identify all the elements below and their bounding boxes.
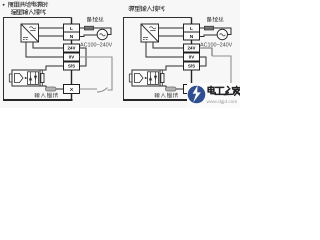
input switch <box>80 88 98 90</box>
wire AC source to N <box>80 35 98 37</box>
external input loop from 24V <box>200 48 213 56</box>
svg-text:N: N <box>70 34 74 40</box>
wire PSU to N <box>159 35 184 37</box>
svg-text:24V: 24V <box>67 46 75 51</box>
input switch <box>200 88 218 90</box>
terminal N <box>184 32 200 40</box>
AC/DC power supply unit <box>21 24 39 42</box>
internal resistor parallel to LED <box>41 70 43 86</box>
AC source <box>217 29 227 39</box>
wire to X terminal <box>40 86 64 89</box>
external input loop from 0V <box>80 57 113 90</box>
optocoupler detector arrow <box>15 74 24 83</box>
svg-text:0V: 0V <box>69 55 75 60</box>
header line 2: sink type input wiring <box>11 10 16 15</box>
optocoupler detector arrow <box>135 74 144 83</box>
watermark logo circle <box>188 86 206 104</box>
fuse <box>85 26 94 30</box>
right header: source type input wiring <box>129 6 135 11</box>
terminal L <box>64 24 80 32</box>
optocoupler LED pair box <box>148 72 159 85</box>
optocoupler input circuit box <box>132 70 160 86</box>
label input impedance <box>155 93 160 97</box>
wire L to fuse to AC source <box>80 28 112 35</box>
svg-text:S/S: S/S <box>68 64 75 69</box>
label fuse (baoxiansi) <box>207 17 211 22</box>
optocoupler output stubs <box>9 74 12 82</box>
svg-text:www.dgjd.com: www.dgjd.com <box>207 99 238 105</box>
wire PSU to L <box>39 27 64 29</box>
terminal 0V <box>184 53 200 61</box>
label input impedance <box>35 93 40 97</box>
terminal 24V <box>64 44 80 52</box>
PLC enclosure bottom edge (thick) <box>123 99 193 101</box>
wire to S/S terminal <box>160 66 184 70</box>
label fuse (baoxiansi) <box>87 17 91 22</box>
input impedance resistor <box>46 87 57 91</box>
watermark logo lightning <box>193 85 201 102</box>
watermark text dian gong zhi jia <box>208 86 215 93</box>
header line 1: when using supplied power <box>9 2 14 7</box>
terminal X <box>184 85 200 94</box>
svg-text:24V: 24V <box>187 46 195 51</box>
svg-text:0V: 0V <box>189 55 195 60</box>
wire to S/S terminal <box>40 66 64 70</box>
wire PSU to L <box>159 27 184 29</box>
header bullet <box>3 4 5 6</box>
terminal L <box>184 24 200 32</box>
input impedance resistor <box>166 87 177 91</box>
fuse <box>205 26 214 30</box>
optocoupler LED pair box <box>28 72 39 85</box>
terminal S/S <box>64 62 80 70</box>
AC/DC power supply unit <box>141 24 159 42</box>
terminal 0V <box>64 53 80 61</box>
terminal N <box>64 32 80 40</box>
optocoupler output stubs <box>129 74 132 82</box>
jumper 24V to S/S <box>80 48 87 66</box>
PLC boundary line through terminals <box>71 18 73 101</box>
svg-text:L: L <box>70 26 73 32</box>
internal resistor parallel to LED <box>161 70 163 86</box>
svg-text:L: L <box>190 26 193 32</box>
terminal X <box>64 85 80 94</box>
optocoupler input circuit box <box>12 70 40 86</box>
wire L to fuse to AC source <box>200 28 232 35</box>
wire to X terminal <box>160 86 184 89</box>
terminal 24V <box>184 44 200 52</box>
wire PSU to 0V terminal <box>26 42 64 57</box>
PLC enclosure outline <box>4 18 72 100</box>
PLC enclosure outline <box>124 18 192 100</box>
terminal S/S <box>184 62 200 70</box>
wire PSU to N <box>39 35 64 37</box>
wire PSU to 24V terminal <box>153 42 184 48</box>
wire PSU to 24V terminal <box>33 42 64 48</box>
svg-text:N: N <box>190 34 194 40</box>
watermark background <box>187 83 240 108</box>
AC source <box>97 29 107 39</box>
jumper 0V to S/S <box>200 57 207 66</box>
svg-text:S/S: S/S <box>188 64 195 69</box>
PLC enclosure bottom edge (thick) <box>3 99 73 101</box>
PLC boundary line through terminals <box>191 18 193 101</box>
wire PSU to 0V terminal <box>146 42 184 57</box>
wire AC source to N <box>200 35 218 37</box>
